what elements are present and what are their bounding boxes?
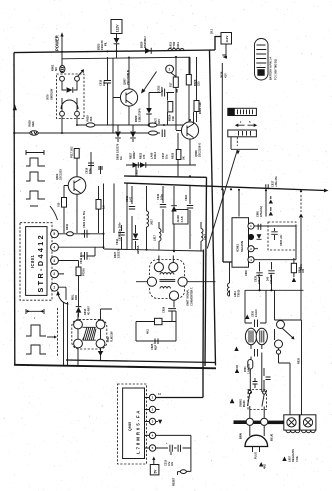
- svg-text:2SC2158-O: 2SC2158-O: [197, 143, 201, 157]
- svg-text:STR-D4412: STR-D4412: [36, 233, 45, 293]
- svg-text:J817: J817: [150, 219, 154, 225]
- svg-text:100u: 100u: [159, 194, 163, 200]
- svg-text:1: 1: [53, 286, 55, 290]
- svg-text:BRN: BRN: [239, 433, 243, 439]
- svg-text:TO 7.08V TM3 DQ: TO 7.08V TM3 DQ: [275, 59, 278, 80]
- svg-text:16v: 16v: [171, 461, 174, 466]
- svg-text:Q867: Q867: [122, 78, 126, 85]
- svg-text:SE115N: SE115N: [240, 241, 244, 252]
- svg-text:3K3: 3K3: [89, 116, 93, 121]
- svg-text:15K: 15K: [171, 116, 175, 121]
- svg-text:817: 817: [169, 82, 173, 87]
- svg-text:C806 +0C: C806 +0C: [280, 234, 283, 246]
- svg-text:BATTERY A PIN 1-4: BATTERY A PIN 1-4: [270, 56, 273, 80]
- svg-text:NLP: NLP: [154, 345, 158, 350]
- svg-text:P720A: P720A: [82, 268, 86, 276]
- svg-text:2SC2168LN: 2SC2168LN: [126, 70, 130, 85]
- svg-text:J411: J411: [176, 42, 180, 48]
- svg-text:D826 1SS176: D826 1SS176: [116, 143, 120, 160]
- svg-text:4M2: 4M2: [264, 464, 267, 469]
- svg-text:DS205KJ: DS205KJ: [143, 36, 147, 48]
- svg-text:R830: R830: [298, 357, 301, 364]
- svg-text:94R-2: 94R-2: [153, 151, 157, 159]
- svg-text:28.1: 28.1: [210, 28, 214, 34]
- svg-text:2SC2233: 2SC2233: [59, 169, 63, 180]
- svg-text:REF.: REF.: [31, 121, 35, 127]
- svg-text:C817: C817: [271, 180, 275, 187]
- svg-text:Q985: Q985: [128, 422, 132, 432]
- svg-text:L817: L817: [153, 235, 157, 241]
- svg-text:CONVERTER T.: CONVERTER T.: [189, 287, 193, 306]
- svg-text:FIL: FIL: [103, 42, 107, 46]
- svg-text:3: 3: [53, 259, 55, 263]
- svg-text:D815: D815: [83, 308, 87, 315]
- svg-text:5: 5: [53, 232, 55, 236]
- svg-text:180: 180: [302, 268, 305, 273]
- svg-text:L815: L815: [169, 41, 173, 48]
- svg-text:C819: C819: [85, 167, 89, 174]
- svg-text:0.47: 0.47: [128, 196, 132, 202]
- svg-text:1SS176: 1SS176: [100, 40, 104, 50]
- svg-text:COIL: COIL: [295, 455, 299, 462]
- svg-text:POWER: POWER: [55, 35, 60, 51]
- svg-text:R825: R825: [171, 152, 175, 159]
- svg-text:HM20A: HM20A: [137, 245, 140, 254]
- svg-text:1SB17GFA: 1SB17GFA: [138, 108, 142, 122]
- svg-text:1SS176: 1SS176: [117, 248, 121, 258]
- svg-text:470u/25v: 470u/25v: [270, 273, 273, 284]
- svg-text:015: 015: [57, 202, 61, 207]
- svg-text:D829: D829: [134, 115, 138, 122]
- svg-text:t: t: [34, 316, 35, 320]
- svg-text:NC: NC: [54, 67, 58, 71]
- svg-text:R801: R801: [51, 64, 55, 71]
- svg-text:112V: 112V: [115, 24, 119, 32]
- svg-text:41Y: 41Y: [223, 73, 227, 78]
- svg-text:C821: C821: [135, 169, 139, 176]
- svg-text:R819: R819: [86, 115, 90, 122]
- svg-text:UK: UK: [182, 156, 186, 160]
- svg-text:TLM2100: TLM2100: [110, 331, 113, 342]
- svg-text:C814 2.2u 250v: C814 2.2u 250v: [118, 222, 122, 241]
- svg-text:D823: D823: [97, 43, 101, 50]
- svg-text:T8013: T8013: [237, 289, 241, 297]
- svg-text:BLUE: BLUE: [270, 433, 274, 441]
- svg-text:MAIN: MAIN: [243, 400, 246, 407]
- svg-text:220u: 220u: [102, 80, 106, 86]
- svg-text:2: 2: [53, 272, 55, 276]
- svg-text:470u/25v: 470u/25v: [258, 273, 261, 284]
- svg-text:JL10K: JL10K: [177, 215, 180, 223]
- svg-text:470: 470: [142, 154, 146, 159]
- svg-text:C821 2.2u 50v: C821 2.2u 50v: [82, 210, 86, 228]
- svg-text:3678: 3678: [47, 94, 50, 100]
- svg-text:Q802: Q802: [55, 173, 59, 180]
- svg-text:R827: R827: [129, 152, 133, 159]
- svg-text:C817: C817: [161, 152, 165, 159]
- svg-text:4K2: 4K2: [146, 329, 150, 334]
- svg-text:1.8: 1.8: [102, 205, 106, 209]
- svg-text:C824: C824: [184, 194, 188, 201]
- svg-text:0.47: 0.47: [160, 86, 164, 92]
- svg-text:3.3-B: 3.3-B: [181, 216, 184, 222]
- svg-text:PLUG: PLUG: [254, 452, 258, 459]
- svg-text:T790: T790: [172, 41, 176, 48]
- svg-text:1: 1: [168, 68, 170, 72]
- svg-text:4D R07: 4D R07: [87, 306, 91, 315]
- svg-text:R811: R811: [65, 223, 69, 230]
- svg-text:C812 2.2u: C812 2.2u: [79, 251, 83, 264]
- svg-text:C825: C825: [150, 343, 154, 350]
- svg-text:470u(16v): 470u(16v): [260, 206, 263, 217]
- svg-text:D820: D820: [140, 41, 144, 48]
- svg-text:C836: C836: [245, 270, 248, 276]
- svg-text:IC981: IC981: [236, 244, 240, 252]
- svg-text:4N827: 4N827: [132, 151, 136, 159]
- svg-text:C826: C826: [162, 306, 166, 313]
- svg-text:R08: R08: [74, 295, 78, 300]
- svg-text:LA65: LA65: [150, 152, 154, 159]
- svg-text:APC: APC: [158, 119, 161, 124]
- svg-text:L807: L807: [288, 456, 292, 462]
- svg-text:RESET: RESET: [173, 477, 176, 486]
- svg-text:Q868: Q868: [194, 150, 198, 157]
- svg-text:10u: 10u: [165, 154, 169, 159]
- svg-text:R823: R823: [139, 152, 143, 159]
- svg-text:KA: KA: [119, 156, 123, 160]
- svg-text:SWIT SIGNAL: SWIT SIGNAL: [186, 289, 190, 306]
- svg-text:MDL: MDL: [71, 294, 75, 300]
- svg-text:R821 12K: R821 12K: [198, 102, 202, 114]
- svg-text:IC801: IC801: [30, 255, 35, 268]
- svg-text:0802: 0802: [107, 336, 110, 342]
- svg-text:2K36: 2K36: [220, 71, 224, 78]
- svg-text:112V: 112V: [225, 36, 229, 43]
- svg-text:P117 2K2: P117 2K2: [70, 146, 74, 158]
- svg-text:L812: L812: [203, 234, 207, 240]
- svg-text:D827: D827: [113, 251, 117, 258]
- svg-text:L78MR05-FA: L78MR05-FA: [135, 409, 140, 454]
- svg-text:4: 4: [53, 246, 55, 250]
- svg-text:GM391IW: GM391IW: [51, 88, 54, 100]
- svg-text:220: 220: [197, 81, 201, 86]
- svg-text:+39v 25v: +39v 25v: [274, 176, 278, 187]
- svg-text:DEGAUSS: DEGAUSS: [291, 449, 295, 462]
- svg-text:100u: 100u: [88, 168, 92, 174]
- svg-text:0.1/AC: 0.1/AC: [255, 309, 258, 317]
- svg-text:L812: L812: [233, 291, 237, 297]
